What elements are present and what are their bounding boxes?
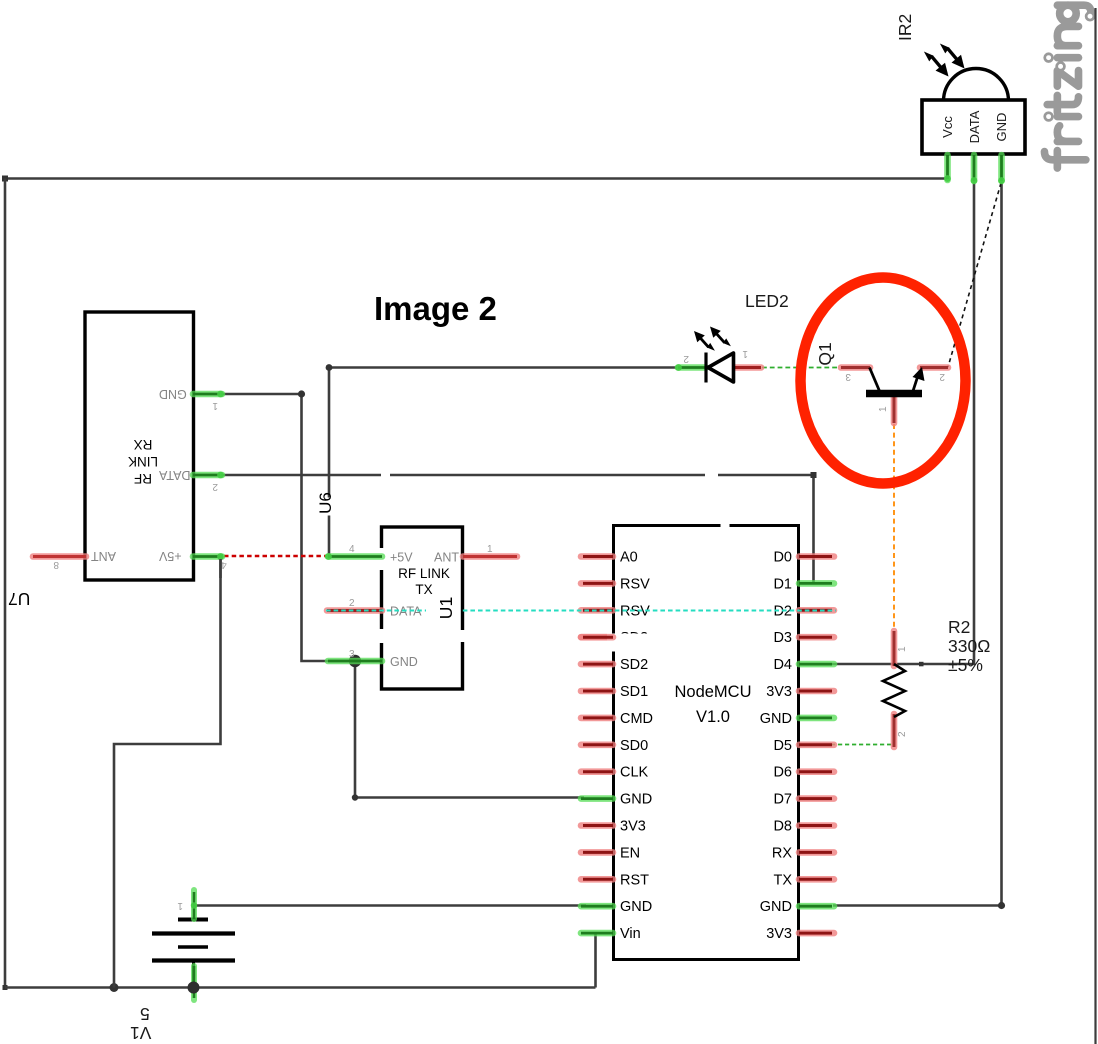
NodeMCU right pin D4 row 5 [799, 661, 834, 668]
svg-text:Vcc: Vcc [940, 116, 955, 138]
wire top horizontal IR2 Vcc to far left [5, 177, 947, 180]
svg-text:GND: GND [390, 655, 418, 669]
TX pin stub GND (3) [328, 658, 382, 665]
battery V1 plate long [152, 931, 235, 935]
svg-text:D0: D0 [773, 550, 792, 566]
svg-text:Image 2: Image 2 [374, 290, 497, 327]
IR2 incoming arrow b [937, 38, 969, 73]
svg-text:CLK: CLK [620, 765, 649, 781]
NodeMCU left pin 3V3 row 11 [581, 822, 613, 829]
svg-text:SD0: SD0 [620, 738, 648, 754]
NodeMCU right pin RX row 12 [799, 849, 834, 856]
battery V1 bottom lead [192, 960, 195, 987]
svg-text:GND: GND [994, 113, 1009, 142]
wire orange dashed Q1 pin1 to R2 pin1 [893, 424, 895, 630]
Q1 base stub pin 3 [841, 364, 870, 371]
svg-text:RX: RX [134, 437, 153, 452]
svg-text:1: 1 [212, 400, 218, 411]
NodeMCU right pin 3V3 row 15 [799, 930, 834, 937]
Q1 base diagonal [870, 368, 880, 392]
TX right border white gap [459, 630, 466, 642]
svg-text:V1: V1 [130, 1023, 151, 1043]
node corner dot at RX+5V stub end [218, 555, 223, 560]
resistor R2 zigzag [883, 664, 905, 717]
NodeMCU left pin SD1 row 6 [581, 688, 613, 695]
wire RX DATA to NodeMCU D1 [221, 475, 814, 582]
svg-text:DATA: DATA [158, 468, 190, 482]
NodeMCU right pin GND row 7 [799, 715, 834, 722]
svg-text:TX: TX [773, 872, 792, 888]
svg-text:V1.0: V1.0 [696, 708, 730, 726]
svg-text:GND: GND [760, 711, 792, 727]
RX pin stub GND (1) [193, 391, 224, 398]
svg-text:U7: U7 [8, 589, 30, 609]
NodeMCU left pin Vin row 15 [581, 930, 613, 937]
wire RX +5V down to bottom wire [114, 557, 221, 988]
svg-text:RST: RST [620, 872, 649, 888]
node junction at RX GND wire [298, 390, 305, 397]
node junction on bottom wire [110, 983, 119, 992]
wire left vertical [4, 179, 7, 989]
svg-text:3V3: 3V3 [766, 684, 792, 700]
svg-text:3: 3 [845, 371, 851, 382]
battery V1 plate short [178, 945, 208, 949]
svg-text:RF LINK: RF LINK [398, 566, 450, 581]
battery V1 minus stub [191, 966, 197, 1000]
svg-text:4: 4 [349, 544, 355, 555]
svg-text:ANT: ANT [434, 551, 459, 565]
svg-text:RX: RX [772, 845, 792, 861]
wire bottom horizontal [5, 986, 596, 989]
IR2 box [922, 100, 1025, 154]
battery V1 plate short top [178, 918, 208, 922]
RF LINK RX module U7 box [85, 312, 194, 580]
NodeMCU left pin A0 row 1 [581, 553, 613, 560]
RF LINK TX module U1 box [382, 527, 463, 689]
NodeMCU right pin D7 row 10 [799, 795, 834, 802]
svg-text:2: 2 [212, 481, 218, 492]
IR2 dome [944, 69, 1009, 102]
svg-text:1: 1 [897, 646, 908, 652]
NodeMCU left pin RSV row 3 [581, 607, 613, 614]
NodeMCU right pin D5 row 8 [799, 741, 834, 748]
svg-text:RF: RF [134, 471, 152, 486]
svg-text:GND: GND [760, 899, 792, 915]
RX pin stub ANT (8) red [33, 553, 86, 560]
svg-text:GND: GND [620, 792, 652, 808]
Q1 pin2 stub [920, 364, 948, 371]
svg-text:LED2: LED2 [745, 291, 789, 311]
wire RX GND to TX GND [221, 394, 353, 661]
node bendpoint dot on D4 wire [919, 662, 924, 667]
NodeMCU right pin D0 row 1 [799, 553, 834, 560]
LED2 emission arrow a [690, 328, 717, 356]
RX label U6 with white backing [316, 492, 335, 515]
NodeMCU right pin 3V3 row 6 [799, 688, 834, 695]
NodeMCU right pin D8 row 11 [799, 822, 834, 829]
fritzing logo [1044, 5, 1093, 168]
svg-text:3: 3 [349, 649, 355, 660]
wire cyan dashed TX DATA to NodeMCU D2 [326, 610, 836, 612]
svg-text:±5%: ±5% [948, 655, 983, 675]
IR2 pin stub GND [998, 155, 1005, 184]
svg-text:2: 2 [683, 353, 689, 364]
wire green dashed NodeMCU D5 to R2 pin2 [810, 744, 893, 746]
wire TX GND down to NodeMCU GND [355, 661, 584, 798]
svg-text:D1: D1 [773, 576, 792, 592]
svg-text:RSV: RSV [620, 576, 650, 592]
wire NodeMCU GND to IR2 GND [833, 181, 1002, 906]
svg-text:1: 1 [742, 348, 748, 359]
svg-text:TX: TX [415, 582, 432, 597]
svg-text:1: 1 [177, 900, 183, 911]
resistor R2 pin2 stub [891, 714, 898, 747]
NodeMCU right pin D3 row 4 [799, 634, 834, 641]
svg-text:D3: D3 [773, 630, 792, 646]
node corner dot DATA-D1 wire [811, 472, 817, 478]
IR2 pin stub DATA [971, 155, 978, 184]
svg-text:DATA: DATA [967, 110, 982, 143]
NodeMCU left pin RST row 13 [581, 876, 613, 883]
battery V1 plus stub [191, 890, 197, 919]
svg-text:GND: GND [620, 899, 652, 915]
NodeMCU left pin RSV row 2 [581, 580, 613, 587]
svg-text:LINK: LINK [128, 454, 158, 469]
IR2 pin stub Vcc [944, 155, 951, 182]
RX pin stub DATA (2) [193, 472, 224, 479]
NodeMCU SD3 stub redraw over artifact [581, 634, 613, 641]
svg-text:+5V: +5V [390, 551, 413, 565]
NodeMCU white artifact box over SD3 [607, 634, 652, 652]
wire Vin riser [594, 933, 597, 988]
TX label U1 white backing over cyan [426, 600, 460, 626]
NodeMCU left pin GND row 10 [581, 795, 613, 802]
NodeMCU right pin TX row 13 [799, 876, 834, 883]
svg-text:2: 2 [349, 598, 355, 609]
NodeMCU left pin SD0 row 8 [581, 741, 613, 748]
LED2 pin stub cathode green [675, 364, 706, 371]
NodeMCU right pin D1 row 2 [799, 580, 834, 587]
NodeMCU U? box [614, 526, 799, 960]
svg-text:GND: GND [159, 387, 187, 401]
wire LED2 cathode to TX +5V [329, 368, 677, 557]
node corner dot GND-IR wire [998, 902, 1005, 909]
svg-text:D8: D8 [773, 819, 792, 835]
svg-text:Vin: Vin [620, 926, 641, 942]
node TX GND big junction [349, 655, 361, 667]
Q1 emitter diagonal with arrow [913, 367, 925, 391]
svg-text:3V3: 3V3 [766, 926, 792, 942]
wire red dashed RX+5V to TX+5V [224, 555, 326, 557]
NodeMCU left pin EN row 12 [581, 849, 613, 856]
wire green dashed LED2 to Q1 base [762, 367, 840, 369]
wire battery plus to NodeMCU GND [194, 904, 586, 907]
battery V1 plate long bottom [152, 958, 235, 962]
svg-text:Q1: Q1 [815, 342, 835, 365]
svg-text:SD2: SD2 [620, 657, 648, 673]
svg-text:1: 1 [878, 406, 889, 412]
svg-text:330Ω: 330Ω [948, 636, 990, 656]
svg-text:EN: EN [620, 845, 640, 861]
svg-text:CMD: CMD [620, 711, 653, 727]
NodeMCU right pin D2 row 3 [799, 607, 834, 614]
svg-text:R2: R2 [948, 617, 970, 637]
NodeMCU right pin GND row 14 [799, 903, 834, 910]
svg-text:8: 8 [53, 559, 59, 570]
svg-text:U6: U6 [316, 492, 335, 514]
node bottom-left end [3, 985, 8, 990]
svg-text:SD1: SD1 [620, 684, 648, 700]
LED2 pin stub anode red [733, 364, 761, 371]
NodeMCU left pin GND row 14 [581, 903, 613, 910]
svg-text:2: 2 [939, 371, 945, 382]
svg-text:D7: D7 [773, 792, 792, 808]
IR2 incoming arrow a [921, 46, 953, 81]
wire right-edge vertical [1094, 8, 1096, 1044]
TX pin stub ANT (1) red [463, 553, 517, 560]
svg-text:NodeMCU: NodeMCU [674, 683, 751, 701]
wire NodeMCU D4 to IR2 DATA [832, 181, 974, 664]
TX white box over DATA label [426, 600, 460, 626]
svg-text:U1: U1 [436, 597, 456, 619]
RX pin stub +5V (7) [193, 553, 224, 560]
svg-text:2: 2 [897, 731, 908, 737]
LED2 cathode bar [704, 353, 707, 383]
svg-text:5: 5 [140, 1004, 150, 1024]
NodeMCU left pin CLK row 9 [581, 768, 613, 775]
red annotation circle around Q1 [801, 278, 966, 484]
NodeMCU right pin D6 row 9 [799, 768, 834, 775]
svg-text:D5: D5 [773, 738, 792, 754]
LED2 triangle [708, 353, 734, 382]
TX pin stub DATA (2) red [327, 607, 382, 614]
wire black dashed IR2 GND to Q1 pin2 [948, 183, 1001, 367]
node top-left corner [2, 176, 8, 182]
svg-text:3V3: 3V3 [620, 819, 646, 835]
Q1 pin1 stub vertical [891, 396, 898, 423]
TX pin stub +5V (4) [325, 553, 382, 560]
resistor R2 pin1 stub [891, 631, 898, 666]
NodeMCU left pin SD2 row 5 [581, 661, 613, 668]
svg-text:ANT: ANT [91, 549, 116, 563]
svg-text:D6: D6 [773, 765, 792, 781]
LED2 emission arrow b [706, 323, 733, 351]
battery junction dot [188, 982, 200, 994]
svg-text:1: 1 [487, 544, 493, 555]
node corner dot below TX GND [352, 794, 358, 800]
svg-text:IR2: IR2 [895, 14, 915, 41]
svg-text:+5V: +5V [158, 549, 181, 563]
svg-text:D4: D4 [773, 657, 792, 673]
TX left border white gaps [378, 548, 385, 570]
NodeMCU left pin CMD row 7 [581, 715, 613, 722]
node corner dot on LED wire [326, 364, 333, 371]
svg-text:A0: A0 [620, 550, 638, 566]
Q1 body bar [866, 390, 922, 398]
NodeMCU left pin SD3 row 4 [581, 634, 613, 641]
